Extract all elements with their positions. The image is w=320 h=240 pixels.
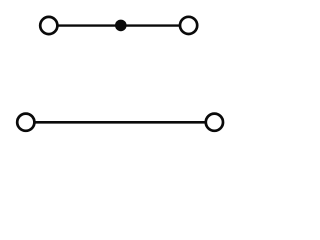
node: upper level junction dot (potential tap) (115, 20, 127, 32)
terminal contact 2.1: lower-left clamp point (17, 114, 34, 131)
terminal contact 2.2: lower-right clamp point (206, 114, 223, 131)
wire: lower level conductor between terminal points (35, 121, 206, 124)
wire: upper level conductor between terminal points (57, 24, 181, 26)
terminal contact 1.2: upper-right clamp point (180, 17, 197, 34)
terminal contact 1.1: upper-left clamp point (40, 17, 57, 34)
